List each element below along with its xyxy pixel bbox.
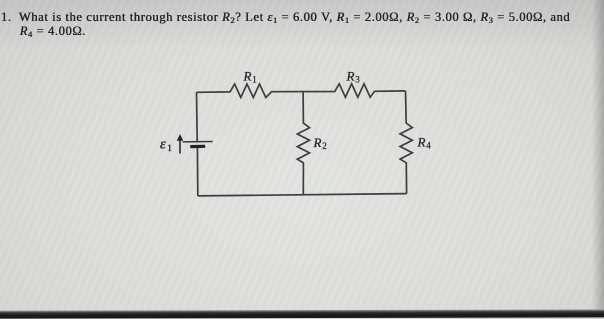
resistor R4 (right branch) with connecting wires	[400, 91, 412, 194]
current/EMF direction arrow	[179, 140, 181, 154]
svg-text:ε: ε	[160, 137, 166, 153]
problem text	[1, 10, 604, 39]
wire: top side with resistors R1 and R3	[197, 84, 406, 98]
svg-text:R: R	[417, 135, 426, 150]
svg-text:R: R	[243, 69, 252, 84]
svg-text:4: 4	[426, 141, 431, 151]
svg-text:1: 1	[167, 143, 172, 153]
svg-text:2: 2	[322, 141, 327, 151]
svg-text:R: R	[313, 135, 322, 150]
battery E1: short thick plate	[190, 145, 205, 149]
wire: left vertical, bottom half (battery to bottom-left corner)	[196, 147, 198, 196]
svg-text:R: R	[346, 68, 355, 83]
svg-text:1: 1	[252, 75, 256, 85]
wire: left vertical, top half (battery to top-left corner)	[196, 92, 199, 141]
svg-text:3: 3	[355, 74, 360, 84]
resistor R2 (middle branch) with connecting wires	[297, 92, 309, 195]
battery E1: long plate	[183, 141, 213, 143]
wire: bottom side	[198, 194, 407, 196]
